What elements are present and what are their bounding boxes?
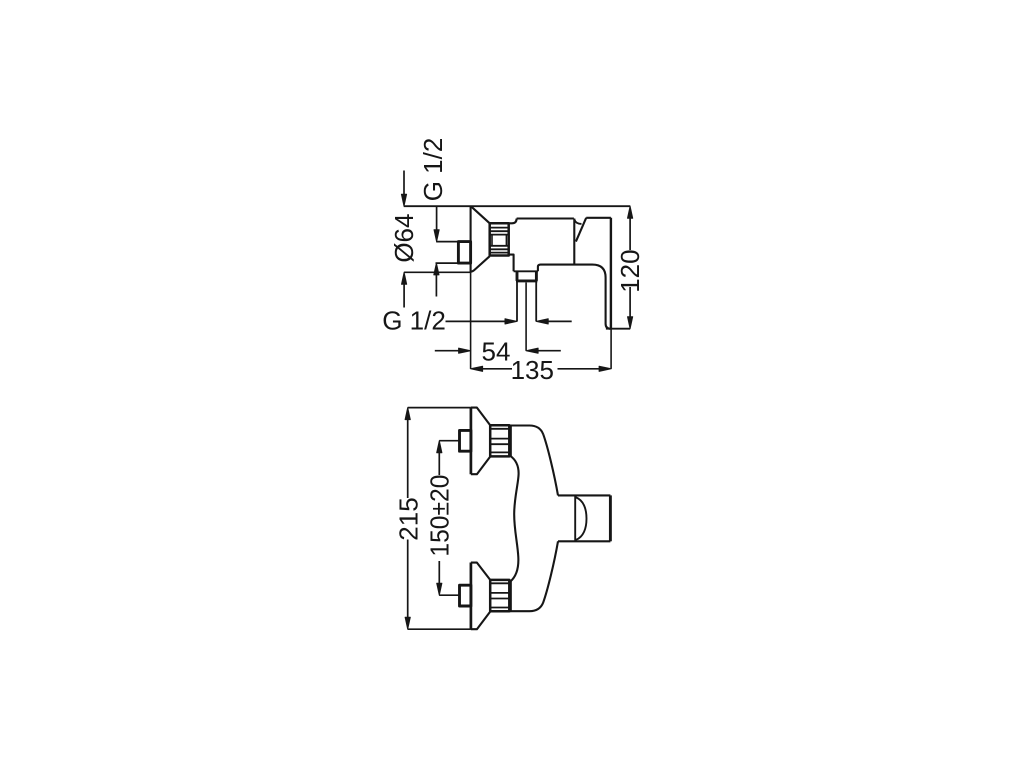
outlet pipe walls (G 1/2): [517, 281, 536, 322]
120 dimension bottom arrow (points down to handle bottom): [629, 287, 631, 318]
svg-text:G 1/2: G 1/2: [382, 305, 446, 335]
135 left arrow head (tip at wall ext): [471, 366, 483, 371]
svg-text:120: 120: [615, 249, 645, 292]
handle top edge: [586, 217, 611, 219]
thread middle relief verticals: [492, 235, 506, 246]
215 dimension top extension line: [408, 407, 471, 409]
step under thread to outlet: [509, 255, 514, 272]
svg-text:215: 215: [393, 497, 423, 540]
top thread block: [490, 425, 509, 456]
body top horizontal outline: [509, 426, 543, 435]
top escutcheon bottom chamfer: [471, 457, 490, 475]
handle right edge extension to 135 dim: [610, 329, 612, 369]
wall line extension down to 135 dimension: [470, 272, 472, 369]
150±20 dimension bottom extension line: [439, 594, 459, 596]
135 dimension line left segment: [481, 368, 512, 370]
handle bottom edge with extension to 120 dim: [606, 328, 630, 330]
body right flank upper curve: [543, 434, 558, 495]
svg-text:135: 135: [511, 355, 554, 385]
bottom thread ribs: [490, 583, 509, 607]
54 dimension right arrow (points left to pipe center): [537, 350, 561, 352]
G 1/2 lower leader line with right-pointing arrow at pipe: [446, 320, 507, 322]
handle rectangle bottom edge and neck bottom: [558, 540, 610, 542]
handle right edge: [610, 218, 612, 329]
top supply box: [460, 430, 471, 451]
outlet connection rectangle: [517, 271, 536, 281]
svg-text:Ø64: Ø64: [389, 214, 419, 263]
wall line (escutcheon back plate): [470, 206, 472, 272]
faucet body top outline: [509, 219, 574, 224]
bottom escutcheon bottom chamfer: [471, 612, 490, 630]
box bottom extension line (G 1/2 reference): [436, 262, 459, 264]
outlet pipe center line: [525, 283, 527, 351]
150±20 dimension top extension line: [439, 440, 459, 442]
150±20 dim line upper part with up arrow: [438, 452, 440, 475]
bottom thread block: [490, 580, 509, 611]
escutcheon cone (side view) bottom slant: [471, 256, 490, 271]
54 dimension left arrow (points right to wall line): [435, 350, 460, 352]
135 dimension line right segment: [558, 368, 602, 370]
escutcheon cone (side view) top slant: [472, 207, 490, 224]
top escutcheon back edge: [470, 408, 473, 475]
body right vertical edge (cartridge area): [573, 219, 575, 265]
bottom escutcheon top chamfer: [471, 563, 490, 580]
G 1/2 lower opposite arrow (points left at pipe right wall): [547, 320, 572, 322]
215 dim line upper part with up arrow: [407, 419, 409, 499]
svg-text:54: 54: [482, 336, 511, 366]
bottom supply box: [460, 585, 471, 606]
handle rectangle left edge: [574, 495, 576, 541]
body underside step and lower-right bulge: [538, 265, 611, 329]
svg-text:G 1/2: G 1/2: [418, 138, 448, 202]
top escutcheon top chamfer: [471, 408, 490, 426]
handle neck and rectangle top edge: [558, 494, 610, 496]
cartridge dome arc: [574, 220, 581, 224]
150±20 dim line lower part with down arrow: [438, 561, 440, 584]
top thread ribs: [490, 429, 509, 453]
outlet top line: [514, 270, 538, 272]
body front face edge at bottom escutcheon: [510, 580, 512, 611]
body left flank S-curve: [510, 456, 518, 582]
lever front slanted edge: [576, 218, 586, 242]
bottom escutcheon back edge: [470, 563, 473, 630]
handle rectangle right edge: [609, 495, 612, 541]
G 1/2 box dimension upper arrow: [436, 206, 438, 231]
body right flank lower curve: [509, 541, 558, 611]
Ø64 dimension upper arrow (points down to top line): [403, 171, 405, 196]
120 dimension top arrow (points up to top line): [629, 217, 631, 250]
svg-text:150±20: 150±20: [424, 475, 454, 557]
threaded connector (side view) outer rect: [490, 223, 509, 255]
box top extension line (G 1/2 reference): [436, 241, 458, 243]
handle grip D-profile: [576, 497, 587, 540]
body front face edge at top escutcheon: [510, 425, 512, 456]
215 dim line lower part with down arrow: [407, 540, 409, 619]
top reference line (escutcheon top / dimension extension): [404, 205, 631, 207]
215 dimension bottom extension line: [408, 628, 471, 630]
Ø64 dimension lower arrow (points up to bottom ext line): [403, 284, 405, 308]
escutcheon bottom extension line (Ø64 reference): [404, 271, 471, 273]
thread ribs (side view): [490, 228, 509, 253]
supply pipe stub box at wall: [458, 242, 470, 264]
135 right arrow head (tip at handle ext): [599, 366, 611, 371]
G 1/2 box dimension lower arrow: [435, 274, 437, 297]
